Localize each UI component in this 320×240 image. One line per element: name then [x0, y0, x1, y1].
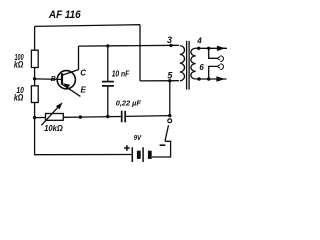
node pin 5 riser junction — [168, 79, 171, 82]
transistor Q1 collector stroke — [62, 70, 79, 76]
capacitor C1 plates — [102, 81, 114, 83]
wire right riser from top rail — [139, 25, 141, 81]
wire secondary pin4 output — [196, 47, 227, 49]
potentiometer P1 arrow — [41, 105, 59, 125]
wire emitter rail pot to emitter node — [63, 116, 80, 118]
wire collector riser — [78, 46, 80, 70]
capacitor C2 0,22 uF plates — [121, 111, 123, 123]
wire left rail top segment — [34, 26, 36, 50]
node base junction — [33, 77, 36, 80]
svg-text:4: 4 — [196, 37, 202, 46]
node left rail / emitter rail junction — [33, 116, 36, 119]
wire rail between base node and R2 — [34, 79, 36, 86]
plug fork lower — [217, 65, 220, 69]
plate long (+) cell 2 — [142, 147, 144, 162]
wire left rail bottom + battery positive wire — [35, 118, 132, 155]
transistor Q1 base bar — [61, 73, 63, 85]
svg-text:6: 6 — [199, 63, 204, 72]
node C1 bottom junction — [106, 115, 109, 118]
socket hook upper — [220, 56, 223, 62]
resistor R1 100 kOhm — [31, 50, 38, 67]
transformer T1 core — [186, 41, 188, 90]
node pin6 terminal — [197, 77, 200, 80]
switch S1 lever — [165, 125, 169, 141]
transistor Q1 emitter stroke — [62, 84, 80, 96]
svg-text:3: 3 — [167, 35, 172, 45]
svg-text:0,22 µF: 0,22 µF — [116, 98, 142, 107]
svg-text:9V: 9V — [134, 135, 142, 143]
plus sign — [124, 147, 130, 149]
plate short (-) cell 1 — [137, 151, 141, 159]
arrow pin6 output — [216, 76, 225, 81]
wire top supply rail — [35, 25, 140, 27]
wire rail between R1 and base node — [34, 68, 36, 80]
value label 10 kOhm — [14, 85, 25, 103]
svg-text:B: B — [51, 76, 56, 83]
wire emitter rail left of potentiometer — [35, 117, 46, 119]
switch S1 contact circle — [168, 119, 172, 123]
node 10nF top junction — [106, 44, 109, 47]
svg-text:C: C — [80, 69, 86, 78]
wire base lead — [35, 78, 62, 81]
svg-text:kΩ: kΩ — [14, 60, 24, 70]
node pin4 branch junction — [207, 47, 210, 50]
wire switch to battery minus — [152, 141, 171, 157]
svg-text:10 nF: 10 nF — [112, 69, 130, 79]
wire secondary pin6 output — [196, 78, 227, 80]
svg-text:kΩ: kΩ — [14, 93, 24, 103]
arrow pin4 output — [217, 46, 226, 51]
socket hook lower — [220, 64, 223, 70]
svg-text:AF 116: AF 116 — [48, 10, 81, 21]
node pin6 branch junction — [207, 77, 210, 80]
capacitor C1 10 nF branch upper lead — [107, 46, 109, 81]
plug fork upper — [217, 56, 220, 60]
transformer T1 primary winding — [180, 46, 185, 81]
value label 100 kOhm — [14, 51, 24, 69]
plate short (-) cell 2 — [148, 151, 152, 159]
wire emitter rail to C2 — [80, 116, 121, 119]
wire collector to pin3 — [79, 44, 179, 47]
battery B1 9V — [124, 135, 165, 162]
node pin 3 terminal — [169, 44, 172, 47]
minus sign — [160, 144, 166, 146]
wire pin4 socket branch — [209, 48, 218, 58]
node pin4 terminal — [197, 47, 200, 50]
plate long (+) cell 1 — [131, 147, 133, 162]
node switch top junction — [168, 114, 171, 117]
wire C2 to switch node — [126, 115, 170, 118]
capacitor C1 lower lead — [107, 86, 109, 116]
svg-text:10kΩ: 10kΩ — [44, 124, 63, 133]
transistor Q1 emitter arrow (PNP, pointing to base) — [63, 83, 70, 89]
transistor Q1 AF116 body — [57, 71, 75, 89]
node emitter junction — [79, 115, 82, 118]
resistor R2 10 kOhm — [31, 86, 38, 103]
wire riser pin5 to switch node — [169, 81, 171, 116]
wire pin6 socket branch — [209, 66, 218, 79]
wire rail between R2 and emitter-rail node — [34, 103, 36, 118]
potentiometer P1 10 kOhm body — [46, 114, 64, 121]
svg-text:E: E — [81, 85, 87, 94]
transformer T1 secondary winding — [191, 48, 196, 79]
wire pin5 feed — [140, 80, 179, 82]
